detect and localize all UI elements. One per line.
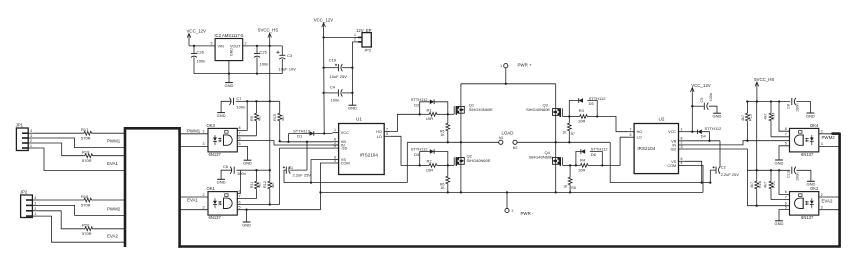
diode D4 STTH112 (bootstrap, U2) [692, 126, 722, 141]
rail 5V right bottom [747, 169, 790, 171]
wire OK3 pin8 to rail [237, 100, 248, 130]
svg-text:1: 1 [681, 128, 683, 132]
svg-text:D4: D4 [701, 134, 707, 139]
svg-text:100n: 100n [236, 105, 245, 110]
resistor R16 4k7 [750, 170, 762, 207]
svg-text:1: 1 [334, 128, 336, 132]
wire JP2.2 to R20 to bus (EVA2) [39, 211, 127, 239]
svg-text:5: 5 [239, 142, 241, 146]
capacitor C5 100n [692, 93, 717, 113]
wire U2 IN row [685, 140, 789, 145]
svg-text:EVA1: EVA1 [107, 161, 118, 166]
svg-text:EVA2: EVA2 [107, 233, 118, 238]
svg-text:4: 4 [34, 196, 36, 200]
svg-text:HO: HO [376, 130, 382, 134]
svg-text:8: 8 [239, 189, 241, 193]
wire C6 to GND [221, 170, 232, 179]
svg-text:10R: 10R [578, 167, 585, 172]
svg-text:570R: 570R [82, 158, 92, 163]
wire bus to OK1 cathode [179, 205, 208, 209]
svg-text:GND: GND [775, 221, 784, 226]
svg-text:4: 4 [681, 161, 683, 165]
svg-text:3: 3 [30, 134, 32, 138]
terminal LOAD M1 [499, 130, 514, 144]
svg-text:C13: C13 [787, 171, 791, 178]
svg-text:LO: LO [377, 135, 382, 139]
svg-text:4k7: 4k7 [764, 113, 768, 119]
svg-text:5VCC_HS: 5VCC_HS [754, 77, 774, 82]
svg-text:C26: C26 [197, 49, 205, 54]
svg-text:PWM1: PWM1 [107, 139, 121, 144]
svg-text:100n: 100n [237, 171, 246, 176]
diode D3 STTH112 (gate, Q2) [411, 147, 448, 166]
wire VCC_12V to IC2 VIN [189, 39, 210, 48]
svg-text:LO: LO [637, 136, 642, 140]
svg-text:3: 3 [821, 205, 823, 209]
svg-text:GND: GND [230, 48, 234, 56]
svg-text:GND: GND [806, 113, 815, 118]
transistor Q3 SiHG40N60E [526, 102, 562, 117]
resistor R14 4k7 [764, 102, 776, 137]
svg-text:1: 1 [500, 64, 502, 68]
capacitor C13 100n [787, 167, 811, 182]
wire bus to OK1 anode (EVA1) [179, 193, 208, 203]
svg-text:2.2uF 25V: 2.2uF 25V [293, 172, 312, 177]
svg-text:10uF 10V: 10uF 10V [279, 66, 297, 71]
svg-text:4k7: 4k7 [258, 115, 262, 121]
svg-text:STTH112: STTH112 [591, 147, 609, 152]
svg-text:OK1: OK1 [207, 186, 216, 191]
svg-text:570R: 570R [81, 202, 91, 207]
wire PWR+ to top rail [461, 68, 556, 85]
capacitor C26 100n [191, 46, 205, 74]
wire M2 to right leg phase [517, 141, 610, 143]
svg-text:R12: R12 [263, 181, 267, 188]
resistor R8 1K (gate-source, Q4) [563, 164, 576, 192]
svg-text:7: 7 [630, 128, 632, 132]
diode D5 STTH112 (gate, Q3) [569, 96, 606, 117]
svg-text:4k7: 4k7 [271, 182, 275, 188]
svg-text:R18: R18 [81, 194, 89, 199]
svg-text:1: 1 [354, 33, 356, 37]
wire phase line (VS) to half-bridge mid [284, 142, 407, 182]
ground GND (OK4) [775, 160, 784, 165]
svg-text:IRS2104: IRS2104 [637, 146, 655, 151]
wire OK3 pin5 to GND [237, 142, 247, 160]
svg-text:GND: GND [217, 180, 226, 185]
svg-text:U1: U1 [356, 117, 362, 122]
svg-text:IRS2104: IRS2104 [360, 153, 378, 158]
ground GND (JP3) [348, 105, 357, 110]
svg-text:GND: GND [242, 222, 251, 227]
wire JP2.3 to bus [39, 205, 127, 215]
svg-text:C3: C3 [287, 53, 293, 58]
svg-text:-SD: -SD [341, 147, 348, 151]
svg-text:8: 8 [785, 127, 787, 131]
ground GND (C6) [217, 179, 226, 184]
wire gate node to Q2 gate [448, 164, 454, 166]
svg-text:R4: R4 [580, 158, 586, 163]
wire JP1.2 to R19 to bus (EVA1) [35, 143, 127, 166]
svg-text:570R: 570R [81, 136, 91, 141]
svg-text:D6: D6 [591, 152, 597, 157]
svg-text:6N137: 6N137 [209, 215, 222, 220]
svg-text:VCC_12V: VCC_12V [691, 83, 711, 88]
svg-text:5: 5 [630, 133, 632, 137]
svg-text:C2: C2 [721, 165, 727, 170]
svg-text:7: 7 [239, 194, 241, 198]
wire gate node to Q3 gate [563, 116, 570, 118]
svg-text:GND: GND [348, 106, 357, 111]
wire OK4 cathode to bus [819, 142, 840, 146]
wire phase drop to phase line right [610, 142, 710, 183]
terminal PWR- [505, 192, 534, 216]
svg-text:C25: C25 [260, 49, 268, 54]
wire OK3 pin7 to R9 [237, 132, 256, 136]
wire gate node to Q4 gate [563, 164, 576, 166]
svg-text:2: 2 [354, 38, 356, 42]
gate driver U2 IRS2104 [628, 117, 685, 174]
svg-text:1K: 1K [562, 131, 567, 135]
ground GND (C8) [806, 113, 815, 118]
resistor R13 4k7 [741, 102, 753, 141]
svg-text:VCC: VCC [341, 131, 349, 135]
optocoupler OK4 6N137 (PWM2) [790, 123, 820, 157]
svg-text:2: 2 [821, 130, 823, 134]
terminal LOAD M2 [513, 140, 518, 150]
wire U2 -SD row [685, 149, 748, 206]
diode D6 STTH112 (gate, Q4) [576, 147, 608, 166]
svg-text:U2: U2 [659, 117, 665, 122]
svg-text:10R: 10R [578, 118, 585, 123]
svg-text:C1: C1 [288, 165, 294, 170]
wire VCC_12V trunk [322, 28, 324, 134]
svg-text:7: 7 [785, 195, 787, 199]
connector JP2 [20, 190, 39, 218]
capacitor C1 2.2uF 25V (bootstrap) [283, 142, 311, 183]
wire U2 VB row [685, 140, 720, 142]
svg-text:1: 1 [30, 144, 32, 148]
svg-text:2: 2 [203, 193, 205, 197]
svg-text:PWR +: PWR + [518, 62, 532, 67]
svg-text:GND: GND [775, 160, 784, 165]
svg-text:COM: COM [667, 164, 676, 168]
wire VB riser to right 5V rail [719, 140, 721, 142]
svg-text:3: 3 [203, 205, 205, 209]
optocoupler OK1 6N137 (EVA1) [207, 186, 238, 220]
svg-text:R2: R2 [427, 158, 433, 163]
wire JP1.4 to R17 to bus (PWM1) [35, 133, 127, 143]
svg-text:SiHG40N60E: SiHG40N60E [526, 107, 550, 112]
capacitor C3 10uF 10V (polarized) [277, 46, 297, 74]
svg-text:PWM2: PWM2 [822, 135, 836, 140]
wire OK1 pin8 to rail [237, 170, 240, 193]
svg-text:R3: R3 [579, 108, 585, 113]
resistor R5 1K (gate-source, Q1) [440, 114, 450, 142]
svg-text:GND: GND [217, 113, 226, 118]
svg-text:VCC_12V: VCC_12V [187, 29, 207, 34]
wire OK4 pin7 to R14 [771, 133, 790, 137]
bottom rail (PWR-) [321, 191, 704, 193]
wire U2 VS to phase line [685, 161, 702, 182]
wire OK1 pin5 to GND and GND_HS row [237, 205, 320, 222]
wire VCC_12V trunk to U2 VCC [685, 93, 694, 133]
wire 5VCC_HS trunk down to opto rails [269, 38, 271, 170]
svg-text:PWM2: PWM2 [107, 206, 121, 211]
svg-text:R21: R21 [771, 181, 775, 188]
svg-text:HO: HO [637, 130, 643, 134]
svg-text:GND: GND [713, 114, 722, 119]
capacitor C25 100n [254, 46, 268, 74]
wire JP1.1 to bus [35, 148, 127, 171]
wire bus to OK3 anode (PWM1) [179, 128, 208, 133]
resistor R20 570R [82, 223, 94, 237]
connector JP1 [16, 123, 35, 151]
svg-text:6N137: 6N137 [801, 215, 814, 220]
wire JP3.2 to GND rail [351, 37, 353, 105]
svg-text:STTH112: STTH112 [411, 147, 429, 152]
svg-text:5: 5 [239, 205, 241, 209]
svg-text:R13: R13 [749, 114, 753, 121]
svg-text:6N137: 6N137 [209, 152, 222, 157]
resistor R12 4k7 [263, 170, 275, 204]
wire OK4 pin8 to rail [779, 102, 790, 132]
svg-text:VIN: VIN [218, 45, 225, 49]
ground GND (OK2) [775, 221, 784, 226]
svg-text:C6: C6 [223, 164, 229, 169]
wire OK2 anode to bus (EVA2) [819, 193, 840, 204]
svg-text:1K: 1K [440, 133, 445, 137]
svg-text:2: 2 [512, 209, 514, 213]
wire OK2 pin5 to GND [779, 205, 790, 220]
svg-text:4: 4 [30, 129, 32, 133]
connector JP3 12V_EP [352, 28, 371, 53]
svg-text:5: 5 [785, 205, 787, 209]
svg-text:PWR -: PWR - [521, 211, 534, 216]
svg-text:D2: D2 [414, 102, 420, 107]
svg-text:7: 7 [386, 127, 388, 131]
wire JP2.1 to bus [39, 216, 127, 242]
svg-text:GND: GND [225, 83, 234, 88]
capacitor C2 2.2uF 25V (bootstrap, U2) [709, 141, 739, 184]
svg-text:SiHG40N60E: SiHG40N60E [467, 158, 491, 163]
phase row and LOAD [407, 141, 499, 143]
capacitor C7 100n [230, 96, 248, 110]
svg-text:JP3: JP3 [364, 47, 372, 52]
svg-text:R9: R9 [250, 116, 254, 121]
resistor R19b 4k7 [764, 170, 776, 199]
wire U2 COM to ground rail [685, 165, 703, 192]
svg-text:SiHG40N60E: SiHG40N60E [529, 154, 553, 159]
wire U1 COM to ground rail [319, 163, 332, 210]
wire JP1.3 to bus [35, 138, 127, 148]
svg-text:EVA2: EVA2 [822, 198, 833, 203]
wire IC2 VOUT to 5VCC_HS node [248, 45, 282, 47]
svg-text:100n: 100n [260, 62, 269, 67]
resistor R4 10R (gate, Q4) [575, 158, 604, 173]
wire OK3 pin6 (IN signal) to U1 IN [237, 136, 338, 145]
svg-text:12V_EP: 12V_EP [356, 28, 372, 33]
svg-text:STTH112: STTH112 [411, 97, 429, 102]
svg-text:VCC_12V: VCC_12V [314, 18, 334, 23]
svg-text:3: 3 [334, 144, 336, 148]
svg-text:OK4: OK4 [810, 123, 819, 128]
rail 5V opto bottom [255, 169, 271, 171]
wire U2 HO to gate network [597, 117, 627, 132]
wire U1 LO to gate network [390, 136, 419, 165]
gate driver U1 IRS2104 [333, 117, 391, 175]
wire U1 VS to phase line [310, 160, 333, 184]
ground GND (regulator) [225, 83, 234, 88]
ground GND (OK3) [243, 160, 252, 165]
resistor R11 4k7 [250, 170, 262, 198]
svg-text:8: 8 [785, 190, 787, 194]
wire OK2 pin8 to rail [779, 170, 790, 194]
ground line and GND (regulator) [194, 72, 282, 82]
svg-text:4k7: 4k7 [281, 115, 285, 121]
svg-text:PWM1: PWM1 [187, 128, 201, 133]
svg-text:VCC: VCC [668, 130, 676, 134]
svg-text:D5: D5 [589, 101, 595, 106]
svg-text:4k7: 4k7 [764, 182, 768, 188]
ground GND (OK1) [242, 222, 251, 227]
svg-text:R14: R14 [771, 113, 775, 120]
wire OK2 cathode to bus [819, 205, 840, 209]
svg-text:C19: C19 [329, 57, 337, 62]
ground GND (C7) [217, 113, 226, 118]
svg-text:3: 3 [34, 201, 36, 205]
wire OK2 pin7 to R21 [771, 195, 790, 199]
svg-text:6: 6 [239, 200, 241, 204]
svg-text:6: 6 [239, 136, 241, 140]
svg-text:JP2: JP2 [20, 190, 28, 195]
svg-text:10uF 25V: 10uF 25V [330, 74, 348, 79]
resistor R19 570R [82, 149, 94, 163]
svg-text:3: 3 [681, 145, 683, 149]
resistor R7 1K (gate-source, Q3) [562, 117, 575, 143]
svg-text:JP1: JP1 [16, 123, 24, 128]
diode D2 STTH112 (gate, Q1) [411, 97, 448, 114]
svg-text:M2: M2 [513, 146, 518, 150]
wire OK1 pin7 to R11 [237, 194, 256, 198]
svg-text:R1: R1 [427, 107, 433, 112]
wire U1 HO to gate network [390, 114, 419, 131]
svg-text:IC2 AMS1117-5: IC2 AMS1117-5 [215, 33, 245, 38]
diode D1 STTH112 (bootstrap) [289, 128, 333, 138]
svg-text:R15: R15 [273, 114, 277, 121]
wire 5VCC trunk right [756, 87, 758, 170]
svg-text:C5: C5 [700, 98, 704, 103]
optocoupler OK2 6N137 (EVA2) [790, 186, 820, 220]
wire left leg (drain-source rail) [460, 84, 462, 193]
wire -SD row to U1 [279, 147, 332, 149]
svg-text:R16: R16 [758, 181, 762, 188]
svg-text:R11: R11 [250, 181, 254, 188]
svg-text:OK3: OK3 [207, 123, 216, 128]
svg-text:6N137: 6N137 [801, 152, 814, 157]
resistor R15 4k7 [273, 101, 285, 142]
svg-text:COM: COM [341, 162, 350, 166]
transistor Q4 SiHG40N60E [529, 150, 563, 166]
wire gate node to Q1 gate [448, 113, 454, 115]
transistor Q2 SiHG40N60E [454, 153, 491, 166]
power symbol VCC_12V (driver supply) [314, 18, 334, 28]
rail 5V right top [746, 100, 790, 102]
resistor R6 1K (gate-source, Q2) [440, 165, 450, 192]
svg-text:2: 2 [30, 139, 32, 143]
wire OK4 anode to bus (PWM2) [819, 130, 840, 140]
svg-text:EVA1: EVA1 [187, 197, 198, 202]
resistor R18 570R [81, 194, 93, 208]
svg-text:3: 3 [203, 142, 205, 146]
wire D1 to VB row [288, 134, 290, 142]
svg-text:100n: 100n [197, 58, 206, 63]
wire OK2 pin6 row [747, 202, 789, 206]
capacitor C19 10uF 25V [324, 57, 353, 79]
svg-text:VOUT: VOUT [230, 45, 241, 49]
svg-text:5VCC_HS: 5VCC_HS [258, 28, 278, 33]
svg-text:GND: GND [243, 161, 252, 166]
optocoupler OK3 6N137 (PWM1) [207, 123, 238, 157]
resistor R9 4k7 [250, 101, 262, 136]
svg-text:1K: 1K [440, 186, 445, 190]
resistor R17 570R [81, 127, 93, 141]
svg-text:2: 2 [203, 130, 205, 134]
svg-text:D1: D1 [297, 134, 303, 139]
svg-text:100n: 100n [795, 173, 799, 181]
svg-text:2: 2 [821, 193, 823, 197]
svg-text:3: 3 [211, 41, 213, 45]
resistor R3 10R (gate, Q3) [568, 108, 598, 123]
svg-text:M1: M1 [499, 136, 504, 140]
svg-text:3: 3 [821, 142, 823, 146]
svg-text:5: 5 [386, 132, 388, 136]
wire JP2.4 to R18 to bus (PWM2) [39, 200, 127, 211]
svg-text:R17: R17 [81, 127, 89, 132]
capacitor C8 100n [787, 98, 811, 113]
transistor Q1 SiHG40N60E [454, 102, 493, 115]
ground GND (C5) [713, 113, 722, 118]
wire OK4 pin5 to GND [779, 142, 790, 160]
wire bus to OK3 cathode [179, 142, 208, 146]
svg-text:4: 4 [334, 159, 336, 163]
svg-text:8: 8 [239, 126, 241, 130]
svg-text:C7: C7 [236, 96, 242, 101]
svg-text:2: 2 [34, 207, 36, 211]
wire rail-left riser (-SD) [739, 169, 741, 171]
svg-text:R20: R20 [82, 223, 90, 228]
svg-text:100n: 100n [795, 104, 799, 112]
svg-text:570R: 570R [82, 231, 92, 236]
svg-text:R7: R7 [571, 132, 575, 136]
svg-text:5: 5 [785, 142, 787, 146]
svg-text:R8: R8 [571, 186, 575, 190]
power symbol VCC_12V (regulator input) [187, 29, 207, 39]
svg-text:10R: 10R [426, 116, 433, 121]
svg-text:2: 2 [245, 41, 247, 45]
svg-text:STTH112: STTH112 [705, 126, 723, 131]
svg-text:D3: D3 [414, 152, 420, 157]
svg-text:4k7: 4k7 [258, 182, 262, 188]
svg-text:SiHG40N60E: SiHG40N60E [469, 107, 493, 112]
power symbol 5VCC_HS (regulator output) [258, 28, 278, 39]
power symbol 5VCC_HS (right) [754, 77, 774, 87]
wire U2 LO to gate network [602, 137, 627, 165]
svg-text:C8: C8 [787, 104, 791, 109]
svg-text:100n: 100n [331, 98, 340, 103]
capacitor C6 100n [223, 164, 257, 176]
svg-text:C4: C4 [330, 84, 336, 89]
